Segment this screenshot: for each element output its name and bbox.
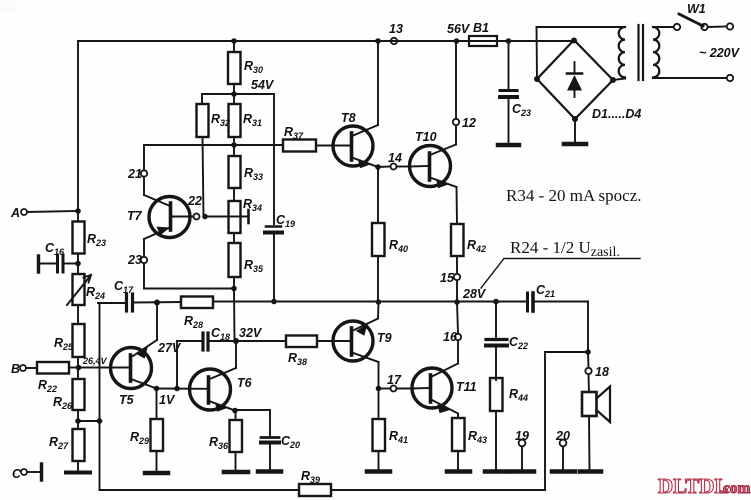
- svg-text:R40: R40: [389, 238, 408, 254]
- ground under bridge: [574, 119, 576, 142]
- svg-text:19: 19: [515, 429, 529, 443]
- wire left drop x=99 from C17 to bottom rail: [99, 303, 101, 490]
- svg-text:C: C: [12, 467, 22, 481]
- resistor R42 + node 15: [440, 187, 486, 305]
- svg-text:~ 220V: ~ 220V: [699, 46, 741, 60]
- terminal B: [11, 362, 37, 376]
- wire T5 base: [79, 367, 130, 369]
- svg-text:R43: R43: [468, 429, 487, 445]
- svg-text:C23: C23: [512, 102, 531, 118]
- svg-text:T11: T11: [456, 380, 477, 394]
- resistor R43: [452, 414, 487, 471]
- svg-text:R41: R41: [389, 429, 408, 445]
- node 23: [127, 239, 234, 289]
- secondary coil: [619, 27, 625, 77]
- wire top rail: [78, 40, 574, 42]
- switch W1: [674, 2, 733, 81]
- wire left vertical A riser: [77, 41, 79, 221]
- transistor T9: [333, 319, 392, 363]
- node 14: [375, 151, 410, 170]
- svg-text:R30: R30: [244, 59, 263, 75]
- ground under R27: [66, 471, 90, 475]
- capacitor C19: [265, 213, 295, 304]
- transistor T11: [412, 364, 477, 414]
- transistor T5: [111, 303, 158, 408]
- DLTDL.com logo: [658, 474, 751, 498]
- resistor R27: [49, 421, 85, 471]
- svg-text:T9: T9: [377, 331, 392, 345]
- svg-text:1V: 1V: [159, 393, 176, 407]
- T6 emitter node: [232, 408, 238, 414]
- svg-text:14: 14: [388, 151, 402, 165]
- svg-text:C17: C17: [114, 279, 134, 295]
- svg-text:R38: R38: [288, 351, 307, 367]
- core: [637, 25, 639, 80]
- resistor R36: [209, 411, 242, 471]
- resistor R44: [490, 378, 528, 470]
- svg-text:23: 23: [127, 253, 142, 267]
- resistor R35: [229, 233, 265, 341]
- svg-text:32V: 32V: [239, 326, 263, 340]
- wire output riser: [587, 302, 589, 353]
- svg-text:22: 22: [187, 194, 202, 208]
- svg-text:R24 - 1/2 Uzasil.: R24 - 1/2 Uzasil.: [510, 238, 620, 260]
- resistor R33: [229, 145, 264, 201]
- svg-text:R33: R33: [244, 166, 263, 182]
- resistor R39: [299, 469, 331, 496]
- svg-text:DLTDL: DLTDL: [658, 474, 728, 498]
- wire bottom rail: [100, 489, 300, 491]
- svg-text:27V: 27V: [157, 341, 182, 355]
- fuse B1: [469, 21, 511, 46]
- transistor T10: [410, 130, 457, 188]
- capacitor C16: [39, 241, 79, 272]
- terminal A: [10, 206, 81, 220]
- svg-text:T6: T6: [237, 376, 253, 390]
- node 13: [389, 22, 403, 44]
- resistor R23: [73, 222, 107, 267]
- svg-text:56V: 56V: [447, 22, 471, 36]
- terminal C: [12, 464, 42, 481]
- capacitor C18: [177, 326, 239, 389]
- svg-text:26,4V: 26,4V: [82, 356, 108, 366]
- node 21: [127, 145, 147, 195]
- primary coil: [653, 27, 659, 77]
- wire right feedback riser: [544, 352, 546, 490]
- node 18: [585, 352, 609, 392]
- svg-text:R37: R37: [284, 125, 304, 141]
- trimmer R24: [67, 264, 105, 325]
- svg-text:T10: T10: [415, 130, 437, 144]
- svg-text:R32: R32: [211, 112, 230, 128]
- svg-text:R36: R36: [209, 435, 229, 451]
- svg-text:R23: R23: [87, 232, 106, 248]
- capacitor C17: [98, 279, 134, 311]
- svg-text:20: 20: [555, 429, 570, 443]
- transformer: [537, 25, 727, 80]
- svg-text:W1: W1: [687, 2, 706, 16]
- bridge rectifier D1..D4: [534, 38, 641, 123]
- wire 54V node: [202, 93, 274, 95]
- svg-text:54V: 54V: [251, 78, 275, 92]
- resistor R22: [37, 362, 79, 394]
- svg-text:21: 21: [127, 167, 142, 181]
- svg-text:T7: T7: [127, 209, 143, 223]
- svg-text:D1.....D4: D1.....D4: [592, 107, 641, 121]
- wire T10 collector riser + node 12: [453, 38, 476, 144]
- transistor T7: [127, 195, 194, 239]
- capacitor C21: [528, 283, 589, 311]
- svg-text:R35: R35: [244, 258, 264, 274]
- resistor R29: [130, 389, 163, 472]
- svg-text:C21: C21: [536, 283, 555, 299]
- svg-text:R42: R42: [467, 238, 486, 254]
- resistor R38: [236, 336, 334, 368]
- capacitor C20: [235, 410, 300, 469]
- node 20: [555, 429, 570, 470]
- svg-text:16: 16: [443, 330, 458, 344]
- svg-text:B: B: [11, 362, 20, 376]
- trim resistor R34 with wiper: [205, 197, 262, 233]
- node 17: [379, 373, 413, 392]
- svg-text:R26: R26: [53, 395, 73, 411]
- svg-text:17: 17: [387, 373, 402, 387]
- svg-text:R28: R28: [184, 314, 203, 330]
- svg-text:C20: C20: [281, 434, 300, 450]
- wire mid rail y=145: [144, 144, 283, 146]
- svg-text:R31: R31: [243, 112, 262, 128]
- svg-text:R34 - 20 mA spocz.: R34 - 20 mA spocz.: [506, 186, 642, 205]
- resistor R32: [197, 94, 231, 217]
- svg-text:R24: R24: [86, 285, 105, 301]
- transistor T8: [333, 111, 378, 168]
- svg-text:C19: C19: [276, 213, 295, 229]
- svg-text:R27: R27: [49, 435, 69, 451]
- resistor R28: [181, 297, 213, 331]
- capacitor C22: [486, 299, 528, 380]
- svg-text:C22: C22: [509, 335, 528, 351]
- svg-text:C18: C18: [211, 326, 230, 342]
- svg-text:18: 18: [595, 365, 609, 379]
- svg-text:R29: R29: [130, 430, 149, 446]
- ground under C23: [498, 143, 519, 148]
- svg-text:28V: 28V: [462, 287, 487, 301]
- T5 emitter node: [154, 386, 207, 407]
- svg-text:15: 15: [440, 271, 455, 285]
- speaker: [582, 387, 610, 471]
- svg-text:R39: R39: [301, 469, 320, 485]
- node 22: [187, 194, 208, 220]
- capacitor C23: [500, 41, 531, 143]
- resistor R41: [373, 389, 409, 471]
- svg-text:R22: R22: [38, 378, 57, 394]
- svg-text:T8: T8: [341, 111, 356, 125]
- resistor R30: [228, 38, 263, 97]
- secondary top frame: [536, 27, 539, 79]
- annotation R24 Uzasil: [481, 238, 640, 288]
- svg-text:R44: R44: [509, 387, 528, 403]
- scan artifact square top-left: [0, 0, 16, 14]
- svg-text:13: 13: [389, 22, 403, 36]
- wire to bottom-left drop: [78, 420, 100, 422]
- node 19: [515, 429, 529, 470]
- resistor R37: [283, 125, 334, 152]
- resistor R25: [54, 324, 85, 370]
- wire 28V rail: [134, 301, 181, 304]
- svg-text:T5: T5: [119, 393, 135, 407]
- resistor R26: [53, 368, 85, 424]
- svg-text:A: A: [10, 206, 20, 220]
- wire T8 collector riser: [377, 41, 379, 125]
- svg-text:B1: B1: [473, 21, 489, 35]
- svg-text:C16: C16: [45, 241, 65, 257]
- wire C19 riser: [273, 94, 275, 224]
- resistor R31: [229, 94, 263, 148]
- svg-text:12: 12: [462, 116, 476, 130]
- transistor T6: [190, 341, 253, 412]
- svg-text:.com: .com: [719, 480, 751, 497]
- resistor R40: [372, 167, 408, 305]
- node 16: [443, 302, 461, 364]
- svg-text:R25: R25: [54, 336, 74, 352]
- svg-text:R34: R34: [243, 197, 262, 213]
